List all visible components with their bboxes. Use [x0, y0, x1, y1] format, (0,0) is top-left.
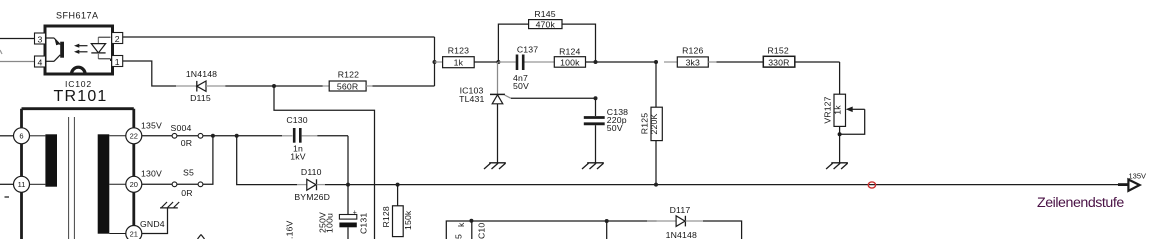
resistor R128	[381, 185, 413, 237]
wire riser x434	[434, 37, 436, 86]
pin 11	[14, 176, 30, 192]
notch of IC102 package	[72, 67, 86, 74]
svg-text:BYM26D: BYM26D	[294, 192, 330, 202]
svg-text:R128: R128	[381, 206, 391, 227]
node junction D115/R122	[272, 84, 276, 88]
diode D117	[647, 205, 703, 240]
svg-text:5: 5	[454, 234, 464, 239]
node fragment left edge	[0, 50, 2, 54]
svg-text:20: 20	[130, 180, 138, 189]
svg-text:0R: 0R	[181, 188, 192, 198]
node junction R123 tap	[433, 60, 437, 64]
svg-text:R126: R126	[682, 46, 703, 56]
wire D115 to R122	[225, 85, 322, 87]
node junction R125 top	[654, 60, 658, 64]
resistor R145 top loop	[498, 9, 595, 62]
svg-text:GND4: GND4	[140, 219, 165, 229]
wire pin21 to chassis	[142, 208, 168, 233]
svg-text:C130: C130	[286, 115, 307, 125]
svg-text:21: 21	[130, 229, 138, 238]
wire pin4 left	[0, 61, 35, 63]
svg-text:100u: 100u	[325, 213, 335, 233]
node junction D110 riser	[235, 134, 239, 138]
node junction bottom mid	[605, 219, 609, 223]
capacitor C137	[498, 44, 554, 91]
node junction R124/R145/C138	[594, 60, 598, 64]
svg-text:k: k	[456, 222, 466, 227]
wire node down to D110	[237, 136, 297, 185]
winding secondary TR101	[98, 134, 126, 233]
svg-text:Zeilenendstufe: Zeilenendstufe	[1037, 195, 1124, 211]
svg-text:22: 22	[130, 132, 138, 141]
winding primary TR101	[30, 134, 58, 186]
svg-text:560R: 560R	[337, 81, 358, 91]
wire R126 to R152	[717, 61, 764, 63]
wire pin3 left	[0, 38, 35, 40]
wire mid drop	[606, 221, 608, 239]
svg-text:130V: 130V	[141, 169, 162, 179]
wire pin1 down	[123, 61, 176, 86]
pin 6	[14, 128, 30, 144]
node junction S5 riser	[211, 134, 215, 138]
svg-text:3k3: 3k3	[686, 57, 700, 67]
wire S004 to C130	[203, 135, 282, 137]
svg-text:6: 6	[19, 132, 23, 141]
wire stubs TR101 left	[0, 135, 14, 137]
svg-text:1N4148: 1N4148	[186, 69, 217, 79]
svg-text:1: 1	[115, 57, 120, 67]
svg-text:3: 3	[38, 35, 43, 45]
transistor U IC103 TL431	[459, 62, 595, 163]
svg-text:R145: R145	[534, 9, 555, 19]
svg-text:S004: S004	[171, 123, 192, 133]
svg-text:135V: 135V	[141, 120, 162, 130]
svg-text:1kV: 1kV	[290, 152, 305, 162]
svg-text:0R: 0R	[181, 138, 192, 148]
potentiometer VR127	[823, 62, 865, 163]
svg-text:220K: 220K	[649, 114, 659, 135]
wire pin2 to node	[123, 36, 435, 38]
resistor R152	[763, 46, 839, 68]
svg-text:11: 11	[18, 180, 26, 189]
node junction TL431 ref	[594, 96, 598, 100]
ground VR127	[826, 163, 848, 169]
svg-text:1k: 1k	[832, 105, 842, 115]
svg-text:R123: R123	[448, 46, 469, 56]
svg-text:D110: D110	[301, 167, 322, 177]
transformer TR101 frame	[22, 109, 134, 239]
wire pin22 to S004	[142, 135, 172, 137]
node output arrow 135V	[1118, 180, 1140, 191]
svg-text:R152: R152	[768, 46, 789, 56]
pin 20	[126, 176, 142, 192]
svg-text:TL431: TL431	[459, 94, 484, 104]
pin 21	[126, 226, 142, 240]
svg-text:R125: R125	[640, 113, 650, 134]
svg-text:S5: S5	[183, 168, 194, 178]
svg-text:330R: 330R	[768, 57, 789, 67]
svg-text:TR101: TR101	[54, 88, 108, 105]
node minus sign	[5, 196, 10, 198]
wire C130 down to rail	[347, 136, 349, 185]
node red marker	[868, 182, 875, 188]
capacitor C131 electrolytic	[318, 185, 369, 239]
wire junction down to long vertical	[274, 86, 375, 239]
svg-text:1k: 1k	[454, 58, 464, 68]
svg-text:+: +	[353, 210, 357, 217]
pin 22	[126, 128, 142, 144]
node junction C130/C131	[346, 183, 350, 187]
svg-text:470k: 470k	[536, 20, 556, 30]
svg-text:R124: R124	[559, 46, 580, 56]
wire bottom box	[446, 221, 656, 239]
pin 2	[112, 33, 123, 45]
svg-text:135V: 135V	[1129, 171, 1147, 180]
capacitor C130	[282, 115, 348, 162]
node junction R125 bottom	[654, 183, 658, 187]
diode LED of IC102	[91, 37, 110, 61]
svg-text:C137: C137	[517, 44, 538, 54]
svg-text:50V: 50V	[513, 81, 529, 91]
wire C10 drop	[471, 221, 473, 239]
svg-text:R122: R122	[338, 70, 359, 80]
svg-text:100k: 100k	[560, 58, 580, 68]
svg-text:C131: C131	[359, 213, 369, 234]
resistor R122	[323, 70, 373, 92]
node junction bottom C10	[469, 219, 473, 223]
svg-text:.16V: .16V	[285, 220, 295, 239]
wire pin20 to S5	[142, 183, 172, 185]
ground chassis GND4	[160, 202, 179, 208]
svg-text:1N4148: 1N4148	[666, 230, 697, 239]
transistor Q phototransistor of IC102	[47, 38, 65, 61]
wire S5 up to node	[203, 136, 213, 185]
diode D115	[176, 69, 225, 103]
svg-text:C10: C10	[477, 223, 487, 239]
svg-text:150k: 150k	[403, 210, 413, 230]
warning triangle	[198, 235, 205, 240]
capacitor C138	[584, 98, 628, 162]
light arrows of IC102	[74, 44, 88, 54]
resistor R126	[664, 46, 717, 68]
wire rail D110 to arrow	[325, 184, 1128, 186]
core TR101	[68, 117, 70, 239]
svg-text:D115: D115	[190, 93, 211, 103]
resistor R123	[435, 46, 499, 68]
node junction R128	[396, 183, 400, 187]
node junction R123/C137/R145/TL431	[496, 60, 500, 64]
svg-text:D117: D117	[670, 205, 691, 215]
wire R122 to riser	[373, 85, 435, 87]
pin 4	[35, 56, 46, 68]
svg-text:VR127: VR127	[823, 96, 833, 123]
svg-text:2: 2	[115, 34, 120, 44]
op-amp U1 optocoupler IC102 body	[45, 26, 113, 74]
svg-text:SFH617A: SFH617A	[56, 11, 99, 21]
svg-text:50V: 50V	[607, 123, 623, 133]
resistor R125	[640, 62, 663, 185]
resistor R124	[554, 46, 656, 67]
diode D110	[294, 167, 330, 202]
pin 3	[35, 33, 46, 45]
pin 1	[112, 56, 123, 68]
svg-text:4: 4	[38, 58, 43, 68]
jumper S004	[171, 123, 203, 148]
ground TL431	[484, 163, 506, 169]
ground C138	[582, 163, 604, 169]
wire D117 right corner	[703, 221, 742, 239]
jumper S5	[172, 168, 203, 198]
